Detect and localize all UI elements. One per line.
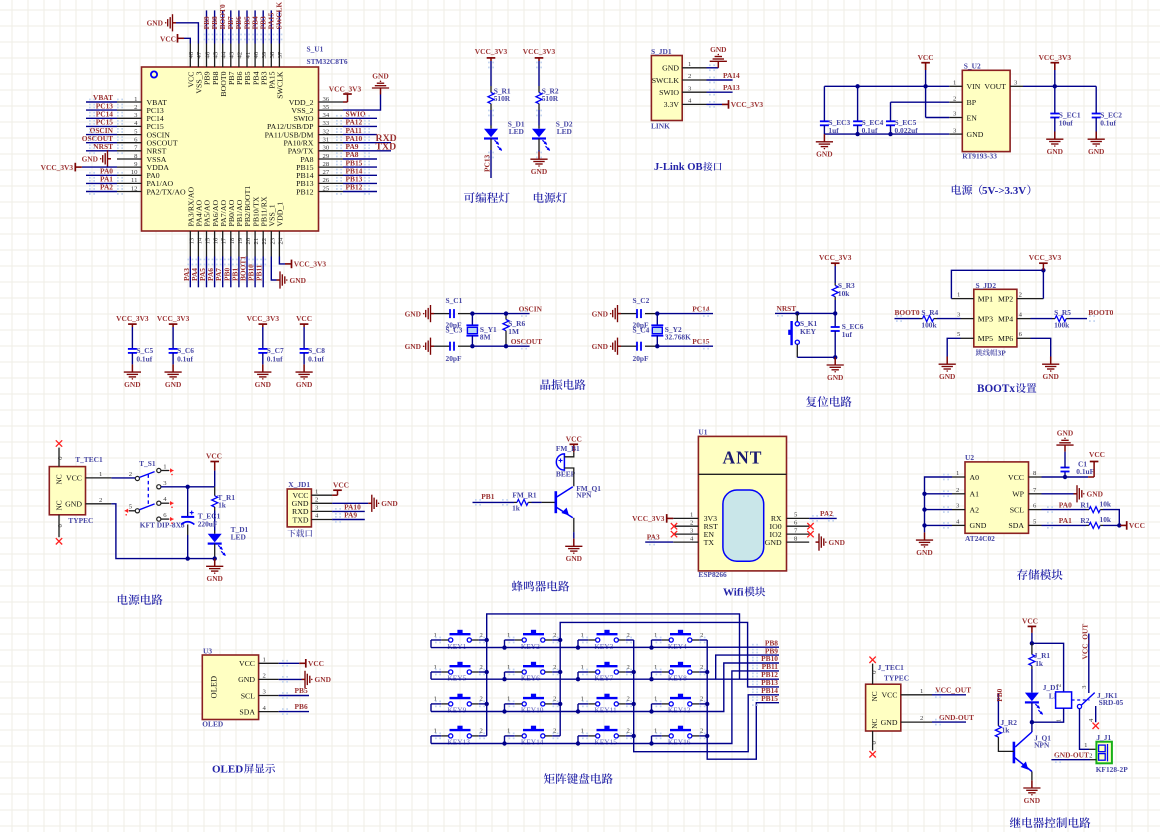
capacitor S_C7 0.1uf [262, 327, 264, 349]
svg-text:19: 19 [237, 237, 244, 244]
wire U1 pin 41 top [246, 44, 248, 68]
wire U1 pin 22 bottom [262, 231, 264, 257]
wire U2 address rail to ground [925, 477, 953, 532]
svg-text:MP3: MP3 [978, 314, 993, 323]
connector S_JD2 jumper 3P [974, 289, 1017, 347]
wire S_R1 to S_D1 [490, 110, 492, 126]
svg-text:GND: GND [124, 380, 140, 389]
wire column 3 to PB14 [634, 640, 779, 752]
svg-text:1: 1 [953, 80, 956, 87]
svg-text:1: 1 [315, 488, 318, 495]
svg-text:VOUT: VOUT [984, 82, 1006, 91]
svg-text:GND: GND [916, 548, 932, 557]
node PA12 [343, 125, 377, 127]
resistor FM_R1 1k [514, 501, 517, 503]
svg-text:FM_R1: FM_R1 [512, 491, 537, 500]
switch KEY8 [669, 670, 673, 674]
svg-text:OLED: OLED [209, 676, 219, 699]
svg-text:2: 2 [953, 95, 956, 102]
ground below U2 rail [924, 532, 926, 540]
ground below S_C7 [262, 364, 264, 372]
wire U1 pin 13 bottom [189, 231, 191, 257]
wire KEY7 pin1 [588, 671, 595, 673]
node NRST [86, 150, 117, 152]
svg-text:2: 2 [1019, 291, 1022, 298]
resistor T_R1 1k [214, 487, 216, 496]
wire row bus 2 and PB12 line [431, 678, 779, 680]
title power LED [534, 192, 567, 203]
wire S_U2 pin 1 row0 [949, 85, 962, 87]
resistor S_R3 10k [834, 266, 836, 283]
svg-text:LED: LED [557, 127, 572, 136]
node PB3 [262, 10, 264, 43]
svg-text:VCC_3V3: VCC_3V3 [1029, 253, 1062, 262]
svg-text:J_TEC1: J_TEC1 [878, 663, 905, 672]
wire U1 pin 30 [319, 150, 344, 152]
svg-text:GND: GND [206, 574, 222, 583]
node PB12 [343, 191, 377, 193]
svg-text:A2: A2 [970, 505, 980, 514]
wire U1 pin 17 bottom [222, 231, 224, 257]
wire KEY1 pin1 [441, 639, 448, 641]
svg-text:0.1uf: 0.1uf [1100, 119, 1116, 128]
svg-text:BP: BP [967, 98, 977, 107]
wire KEY9 pin2 [471, 703, 478, 705]
U1 pin names and numbers [131, 51, 330, 244]
svg-text:48: 48 [188, 51, 195, 58]
wire KEY6 pin2 [545, 671, 552, 673]
node PA9 [343, 150, 391, 152]
wire KEY5 pin1 [441, 671, 448, 673]
svg-text:GND: GND [939, 372, 955, 381]
node PB10 [254, 257, 256, 288]
svg-text:S_C3: S_C3 [446, 326, 463, 335]
resistor J_R1 1k [1031, 643, 1033, 654]
wire FM_R1 to base [532, 501, 542, 503]
svg-text:R1: R1 [1080, 500, 1089, 509]
svg-text:20pF: 20pF [633, 354, 650, 363]
capacitor S_EC6 1uf [834, 313, 836, 327]
title power 5V to 3.3V [952, 185, 972, 195]
node PB13 [343, 182, 377, 184]
svg-text:GND: GND [827, 373, 843, 382]
relay pin4 no connect [1095, 706, 1097, 722]
wire below S_D1 [490, 139, 492, 151]
svg-text:NC: NC [55, 500, 64, 510]
wire S_R3 to NRST node [834, 300, 836, 313]
svg-text:1k: 1k [1035, 659, 1044, 668]
crystal S_Y1 8M [471, 314, 473, 326]
svg-text:1uf: 1uf [842, 330, 853, 339]
svg-text:GND: GND [881, 718, 898, 727]
wire KEY15 pin1 [588, 735, 595, 737]
op-amp U1 body: MCU S_U1 STM32C8T6 [142, 67, 319, 231]
svg-text:PC13: PC13 [483, 154, 492, 172]
wire pin5 to ground [947, 338, 960, 356]
wire U1 pin 40 top [254, 44, 256, 68]
node PA6 [214, 257, 216, 288]
svg-text:NPN: NPN [1034, 740, 1050, 749]
svg-text:SRD-05: SRD-05 [1099, 698, 1124, 707]
wire U2 row 2 [952, 509, 965, 511]
wire U1 pin 2 [117, 109, 142, 111]
wire U1 pin 11 [117, 182, 142, 184]
svg-text:AT24C02: AT24C02 [965, 534, 995, 543]
no-connect X wifi IO2 [807, 531, 813, 537]
svg-text:24: 24 [277, 237, 284, 244]
wire U1 pin 19 bottom [238, 231, 240, 257]
wire J_R1 to J_D1 [1031, 669, 1033, 693]
node PC15 [86, 125, 117, 127]
resistor S_R1 510R [490, 86, 492, 93]
capacitor C1 0.1uF [1064, 472, 1066, 478]
wire U2 VCC pin8 [1042, 476, 1089, 478]
svg-text:A0: A0 [970, 473, 980, 482]
svg-text:NRST: NRST [93, 142, 113, 151]
wire T_D1 to rail [214, 544, 216, 559]
relay switch lever [1072, 699, 1090, 701]
node PA8 [343, 158, 377, 160]
diode J_D1 LED [1025, 693, 1039, 702]
svg-text:LED: LED [231, 532, 246, 541]
switch KEY1 [449, 638, 453, 642]
node BOOT0 right [1070, 318, 1088, 320]
wire KEY9 pin1 [441, 703, 448, 705]
svg-text:0.022uf: 0.022uf [895, 126, 919, 135]
wire KEY13 pin1 [441, 735, 448, 737]
svg-text:GND: GND [315, 675, 331, 684]
svg-text:KEY13: KEY13 [447, 738, 470, 747]
svg-text:VCC_3V3: VCC_3V3 [157, 314, 190, 323]
svg-text:PA13: PA13 [723, 83, 740, 92]
svg-text:LINK: LINK [651, 121, 670, 130]
svg-text:VCC: VCC [566, 434, 582, 443]
svg-text:GND: GND [82, 155, 98, 164]
wire coil bottom to LED bottom junction [1032, 708, 1064, 722]
svg-text:VCC_3V3: VCC_3V3 [329, 85, 362, 94]
node PA5 [206, 257, 208, 288]
svg-text:2: 2 [956, 487, 959, 494]
svg-text:PB12: PB12 [296, 187, 313, 196]
wire U1 pin 9 [117, 166, 142, 168]
svg-text:21: 21 [253, 238, 260, 245]
svg-text:SWCLK: SWCLK [276, 71, 285, 99]
node OSCIN [86, 134, 117, 136]
relay coil J_JK1 SRD-05 [1056, 692, 1072, 708]
wire U2 row 3 [952, 524, 965, 526]
svg-text:SCL: SCL [241, 691, 256, 700]
svg-text:2: 2 [690, 519, 693, 526]
power VCC_3V3 output [1054, 63, 1056, 70]
svg-text:20pF: 20pF [446, 354, 463, 363]
capacitor S_C4 20pF [621, 345, 637, 347]
svg-text:0.1uf: 0.1uf [177, 355, 193, 364]
svg-text:KEY4: KEY4 [668, 642, 687, 651]
svg-text:2: 2 [315, 497, 318, 504]
svg-text:GND: GND [1042, 372, 1058, 381]
wire U1 pin 37 top [278, 44, 280, 68]
svg-text:KEY16: KEY16 [668, 738, 691, 747]
wire U1 wifi pins row 1 [673, 525, 698, 527]
wire S_U2 pin 3 row3 [949, 133, 962, 135]
svg-text:GND: GND [592, 309, 608, 318]
power VCC_3V3 at U1 pin 24 VDD_1 [279, 257, 285, 264]
svg-text:0.1uf: 0.1uf [136, 355, 152, 364]
node BOOT0 [222, 10, 224, 43]
svg-text:1: 1 [920, 688, 923, 695]
wire S_K1 to ground rail [796, 344, 798, 357]
wire U1 pin 15 bottom [206, 231, 208, 257]
node PB9 [206, 10, 208, 43]
svg-text:0.1uF: 0.1uF [1076, 467, 1094, 476]
wire buzzer pins [564, 452, 573, 457]
svg-text:1: 1 [956, 470, 959, 477]
wire U1 pin 46 top [206, 44, 208, 68]
svg-text:U2: U2 [965, 453, 974, 462]
svg-text:ESP8266: ESP8266 [698, 570, 727, 579]
power VCC at U3 pin1 [279, 662, 300, 664]
svg-text:47: 47 [196, 51, 203, 58]
node PB7 [230, 10, 232, 43]
svg-text:17: 17 [221, 237, 228, 244]
wire T_S1 pin3 to VCC rail [161, 486, 215, 488]
svg-text:1: 1 [957, 291, 960, 298]
svg-text:VDD_1: VDD_1 [276, 202, 285, 227]
wire T_EC1 to rail [187, 525, 189, 536]
svg-text:32.768K: 32.768K [665, 333, 691, 342]
svg-text:MP2: MP2 [998, 294, 1013, 303]
svg-text:BOOTx: BOOTx [977, 383, 1015, 395]
svg-text:NC: NC [870, 691, 879, 701]
node GND-OUT to J_J1 pin2 [1051, 759, 1090, 761]
svg-text:PB1: PB1 [481, 492, 494, 501]
svg-text:GND: GND [372, 72, 388, 81]
wire KEY10 pin2 [545, 703, 552, 705]
node PB15 [343, 166, 377, 168]
node PB8 [214, 10, 216, 43]
svg-text:GND: GND [405, 309, 421, 318]
wire U1 pin 33 [319, 125, 344, 127]
svg-text:NPN: NPN [576, 491, 592, 500]
wire U1 pin 5 [117, 134, 142, 136]
node PA11 [343, 134, 377, 136]
switch KEY16 [669, 734, 673, 738]
wire S_R4 to pin3 [937, 318, 961, 320]
title power circuit [118, 594, 163, 605]
capacitor S_EC4 0.1uf [857, 86, 859, 121]
ground left of S_C2 [618, 313, 622, 315]
node PC14 [657, 313, 713, 315]
svg-text:PA2/TX/AO: PA2/TX/AO [147, 187, 187, 196]
svg-text:PA14: PA14 [723, 71, 740, 80]
wire U1 pin 38 top [270, 44, 272, 68]
regulator U2 RT9193-33 [962, 70, 1010, 151]
capacitor S_EC2 0.1uf [1095, 86, 1097, 113]
wire relay common to J_J1 pin1 [1080, 709, 1090, 750]
svg-text:10k: 10k [1100, 515, 1112, 524]
svg-text:KEY14: KEY14 [521, 738, 544, 747]
wire KEY11 pin2 [618, 703, 625, 705]
title reset circuit [806, 396, 852, 407]
wire U1 pin 45 top [214, 44, 216, 68]
wire U1 pin 35 [319, 109, 344, 111]
node VBAT [86, 101, 117, 103]
svg-text:PB5: PB5 [295, 686, 308, 695]
wire U1 wifi pins row 3 [673, 541, 698, 543]
transistor J_Q1 NPN [1015, 732, 1032, 747]
svg-text:S_C4: S_C4 [633, 326, 650, 335]
wire FM_Q1 emitter to ground [573, 518, 575, 532]
node PB11 [262, 257, 264, 288]
wire U1 pin 27 [319, 174, 344, 176]
node PA0 / resistor R1 10k pullup [1042, 509, 1087, 511]
svg-text:VCC_3V3: VCC_3V3 [523, 47, 556, 56]
wire T_TEC1 pin1 [86, 477, 112, 479]
wire KEY3 pin2 [618, 639, 625, 641]
svg-text:KEY11: KEY11 [594, 706, 617, 715]
svg-text:EN: EN [967, 113, 978, 122]
svg-text:41: 41 [245, 52, 252, 59]
svg-text:KEY8: KEY8 [668, 673, 687, 682]
wire U1 wifi pins row 2 [673, 533, 698, 535]
svg-text:VCC_3V3: VCC_3V3 [475, 47, 508, 56]
node PA10 [343, 142, 391, 144]
svg-text:WP: WP [1012, 490, 1024, 499]
wire S_JD1 pin 4 [682, 103, 706, 105]
svg-text:ANT: ANT [723, 448, 763, 468]
svg-text:VCC_3V3: VCC_3V3 [632, 514, 665, 523]
svg-text:10uf: 10uf [1059, 119, 1074, 128]
node PB5 [279, 695, 309, 697]
wire U2 row 1 [952, 493, 965, 495]
wire U2 row 0 [952, 476, 965, 478]
wire KEY14 pin1 [515, 735, 522, 737]
svg-text:SWIO: SWIO [659, 88, 679, 97]
svg-text:KEY12: KEY12 [668, 706, 691, 715]
node PA15 [270, 10, 272, 43]
svg-text:0.1uf: 0.1uf [267, 355, 283, 364]
svg-text:U1: U1 [698, 428, 707, 437]
wire KEY6 pin1 [515, 671, 522, 673]
svg-text:S_U2: S_U2 [964, 61, 981, 70]
connector S_JD1 J-Link [651, 56, 682, 121]
wire pin6 to ground [1031, 338, 1051, 356]
wire KEY8 pin2 [692, 671, 699, 673]
ground at S_JD1 pin 1 [707, 67, 719, 69]
svg-text:VCC_3V3: VCC_3V3 [247, 314, 280, 323]
node PA1 [86, 182, 117, 184]
ground below S_EC2 [1095, 132, 1097, 140]
connector J_TEC1 TYPEC [866, 684, 901, 731]
svg-text:PC15: PC15 [692, 337, 710, 346]
node VCC_OUT at relay pin3 [1088, 634, 1090, 694]
wire U1 pin 20 bottom [246, 231, 248, 257]
svg-text:220uF: 220uF [198, 520, 218, 529]
node PA10 [332, 510, 365, 512]
title relay control circuit [1010, 817, 1091, 828]
no-connect stub top of J_TEC1 [872, 664, 874, 685]
wire S_U2 pin 2 row1 [949, 101, 962, 103]
wire U1 pin 26 [319, 182, 344, 184]
svg-text:5V->3.3V: 5V->3.3V [982, 185, 1026, 197]
svg-text:KEY1: KEY1 [447, 642, 466, 651]
svg-text:OSCIN: OSCIN [519, 304, 543, 313]
svg-text:PB15: PB15 [761, 694, 778, 703]
svg-text:PA9: PA9 [344, 511, 357, 520]
node OSCOUT [86, 142, 117, 144]
power VCC at U2 pin8 [1088, 476, 1094, 478]
svg-text:T_S1: T_S1 [139, 459, 156, 468]
capacitor S_EC1 10uf [1054, 86, 1056, 113]
connector X_JD1 download port [287, 489, 311, 527]
wire loop pin1 to pin2 via VCC_3V3 [951, 270, 1043, 298]
node PB14 [343, 174, 377, 176]
svg-text:KEY6: KEY6 [521, 673, 540, 682]
svg-text:RT9193-33: RT9193-33 [962, 152, 997, 161]
svg-text:10k: 10k [1100, 499, 1112, 508]
svg-text:VCC_OUT: VCC_OUT [935, 686, 971, 695]
power VCC at X_JD1 pin1 [332, 494, 337, 496]
svg-text:STM32C8T6: STM32C8T6 [307, 57, 348, 66]
transistor FM_Q1 NPN [554, 491, 557, 513]
svg-text:13: 13 [188, 237, 195, 244]
svg-text:GND: GND [65, 500, 82, 509]
svg-text:100k: 100k [1054, 321, 1070, 330]
svg-text:PA2: PA2 [100, 183, 113, 192]
svg-text:BEEP: BEEP [556, 469, 576, 478]
svg-text:S_R4: S_R4 [921, 308, 938, 317]
svg-text:42: 42 [237, 52, 244, 59]
svg-text:SWCLK: SWCLK [275, 2, 284, 30]
svg-text:GND: GND [592, 342, 608, 351]
svg-text:2: 2 [1056, 684, 1063, 687]
svg-text:22: 22 [261, 238, 268, 245]
svg-text:VCC: VCC [239, 659, 255, 668]
svg-text:1: 1 [688, 61, 691, 68]
svg-text:1k: 1k [218, 500, 227, 509]
svg-text:FM_B1: FM_B1 [556, 444, 580, 453]
wire U1 pin 48 top [189, 44, 191, 68]
node PA2 [809, 517, 837, 519]
wire KEY16 pin1 [662, 735, 669, 737]
title buzzer circuit [512, 581, 569, 592]
svg-text:KEY3: KEY3 [594, 642, 613, 651]
ground below reset [834, 357, 836, 365]
node VCC_OUT from J_TEC1 pin1 [901, 694, 932, 696]
node PB0 wire / resistor J_R2 [997, 693, 999, 725]
wire KEY3 pin1 [588, 639, 595, 641]
ground below FM_Q1 [573, 539, 575, 547]
svg-text:1: 1 [99, 471, 102, 478]
ground at U1 pin 35 [343, 95, 381, 111]
node PC14 [86, 117, 117, 119]
svg-text:VCC_3V3: VCC_3V3 [294, 260, 327, 269]
wire X_JD1 pin 2 [311, 502, 332, 504]
wire U1 pin 34 [319, 117, 344, 119]
wire U1 pin 10 [117, 174, 142, 176]
wire KEY15 pin2 [618, 735, 625, 737]
resistor S_R4 100k [920, 318, 923, 320]
svg-text:S_R5: S_R5 [1054, 308, 1071, 317]
display U3 OLED [202, 655, 258, 720]
svg-text:10k: 10k [838, 289, 850, 298]
wire U1 pin 47 top [197, 44, 199, 68]
diode S_D1 LED [484, 129, 498, 138]
wire U1 wifi pins row 0 [673, 517, 698, 519]
capacitor S_EC3 1uf [823, 86, 825, 121]
svg-text:PB11: PB11 [255, 264, 264, 281]
wire S_JD2 pins row 0 [951, 298, 973, 300]
